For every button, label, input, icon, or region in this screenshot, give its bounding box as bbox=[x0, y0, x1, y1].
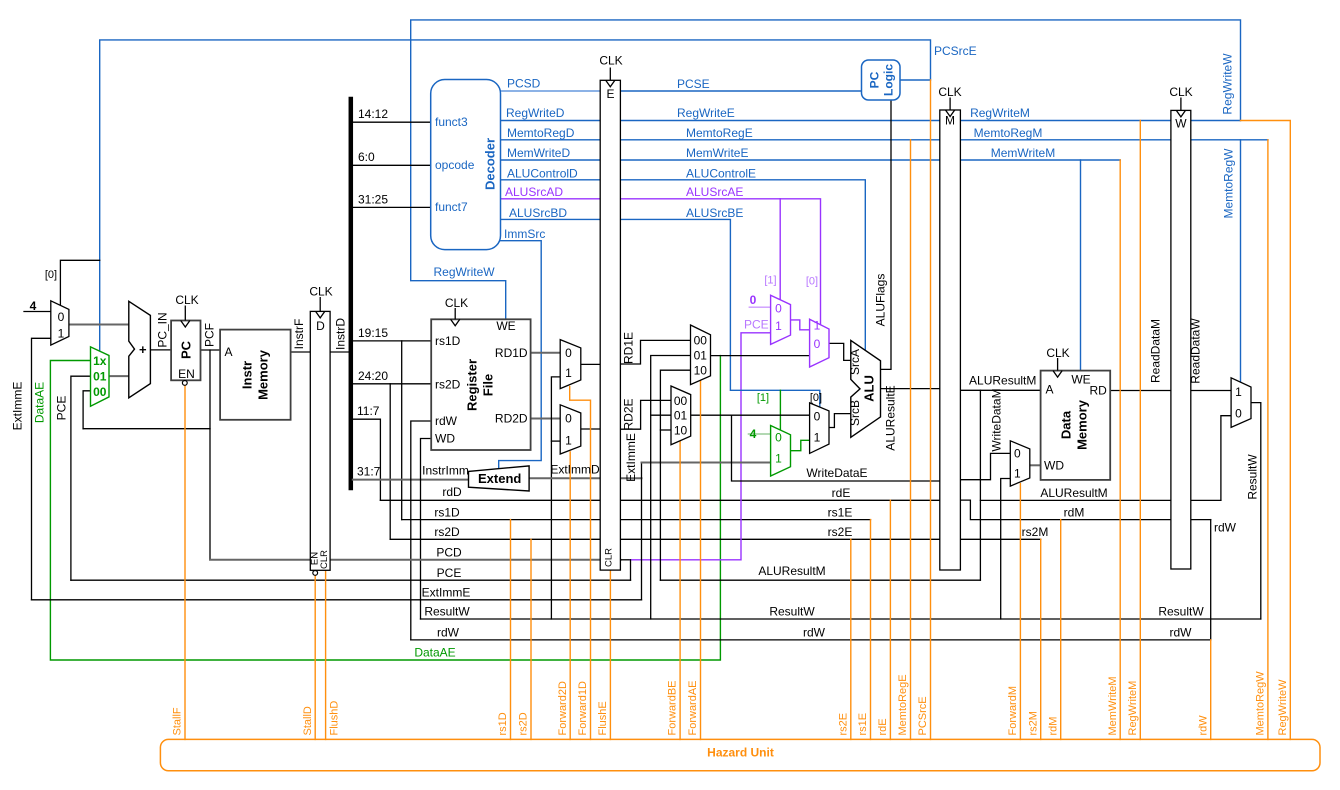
wire MemtoRegW branch down to ResultW mux select bbox=[1240, 140, 1242, 382]
svg-text:rs2D: rs2D bbox=[518, 712, 530, 735]
svg-text:rs1E: rs1E bbox=[828, 506, 853, 520]
svg-text:DataAE: DataAE bbox=[414, 646, 455, 660]
svg-text:rs1D: rs1D bbox=[435, 334, 461, 348]
wire rdM to hazard unit bbox=[1060, 520, 1062, 740]
svg-text:24:20: 24:20 bbox=[358, 369, 388, 383]
memory Data Memory bbox=[1041, 371, 1111, 480]
svg-text:0: 0 bbox=[814, 337, 821, 351]
svg-text:31:25: 31:25 bbox=[358, 193, 388, 207]
mux ALUSrcB mux bbox=[810, 403, 829, 454]
svg-text:1: 1 bbox=[565, 434, 572, 448]
svg-text:ALUSrcAD: ALUSrcAD bbox=[505, 185, 563, 199]
register PC bbox=[171, 321, 200, 381]
wire constant 4 into SrcB constant mux bbox=[748, 433, 770, 435]
wire SrcB constant mux output to SrcB mux bbox=[791, 440, 810, 450]
svg-text:ALUSrcAE: ALUSrcAE bbox=[686, 185, 743, 199]
svg-text:00: 00 bbox=[93, 385, 107, 399]
svg-text:0: 0 bbox=[1014, 447, 1021, 461]
wire instruction bus bbox=[349, 99, 354, 488]
wire ALUResultM from M to Data Memory A bbox=[960, 389, 1040, 391]
svg-text:[0]: [0] bbox=[45, 269, 57, 281]
svg-text:1: 1 bbox=[58, 327, 65, 341]
svg-text:PCE: PCE bbox=[437, 566, 462, 580]
svg-text:SrcA: SrcA bbox=[848, 349, 862, 375]
svg-text:FlushE: FlushE bbox=[597, 701, 609, 735]
wire FlushE to hazard unit bbox=[609, 570, 611, 739]
svg-text:ALU: ALU bbox=[862, 375, 877, 402]
wire SrcA mux1 output to mux2 bbox=[791, 320, 810, 330]
svg-text:D: D bbox=[316, 319, 325, 333]
svg-text:CLK: CLK bbox=[1046, 346, 1069, 360]
svg-text:6:0: 6:0 bbox=[358, 150, 375, 164]
svg-text:E: E bbox=[606, 87, 614, 101]
wire PCE into fetch green mux input 01 bbox=[71, 376, 91, 580]
wire ALUResultM row to W register bbox=[980, 499, 1221, 501]
mux ALUSrcA mux2 bbox=[810, 319, 829, 367]
svg-text:Data: Data bbox=[1059, 410, 1074, 439]
svg-text:rdW: rdW bbox=[435, 414, 458, 428]
svg-text:0: 0 bbox=[1235, 407, 1242, 421]
wire ALUFlags up to PC Logic bbox=[881, 100, 892, 369]
wire MemtoRegW to hazard unit bbox=[1267, 140, 1269, 740]
svg-text:1: 1 bbox=[814, 319, 821, 333]
enable bubble PC EN bbox=[182, 381, 187, 386]
wire SrcA mux2 output to ALU SrcA bbox=[829, 343, 851, 360]
register M pipeline register bbox=[940, 110, 961, 570]
svg-text:ExtImmE: ExtImmE bbox=[422, 586, 471, 600]
svg-text:StallF: StallF bbox=[172, 707, 184, 735]
wire ExtImmE into fetch mux input 1 bbox=[32, 338, 51, 600]
svg-text:0: 0 bbox=[775, 302, 782, 316]
svg-text:4: 4 bbox=[750, 427, 757, 441]
svg-text:ExtImmE: ExtImmE bbox=[624, 433, 638, 482]
svg-text:CLR: CLR bbox=[319, 550, 330, 569]
svg-text:InstrD: InstrD bbox=[334, 318, 348, 350]
svg-text:ExtImmE: ExtImmE bbox=[11, 382, 25, 431]
svg-text:1: 1 bbox=[565, 366, 572, 380]
register file bbox=[431, 319, 530, 450]
wire ALUResultE to M register bbox=[881, 388, 940, 390]
wire RegWriteW top run from W back to Register File WE bbox=[411, 20, 1241, 319]
wire ALUResultM stub to ForwardBE mux input 10 bbox=[660, 429, 671, 431]
svg-text:CLR: CLR bbox=[604, 548, 615, 567]
wire StallD to hazard unit bbox=[314, 575, 316, 739]
wire rs2M to hazard unit bbox=[1040, 539, 1042, 739]
wire constant 4 into fetch mux bbox=[24, 311, 51, 313]
svg-text:ExtImmD: ExtImmD bbox=[550, 463, 600, 477]
svg-text:opcode: opcode bbox=[435, 158, 475, 172]
svg-text:ALUSrcBD: ALUSrcBD bbox=[509, 206, 567, 220]
svg-text:ForwardAE: ForwardAE bbox=[687, 680, 699, 735]
wire bus tap 14:12 to funct3 bbox=[353, 121, 431, 123]
wire forward mux2 output to E register bbox=[581, 428, 600, 430]
enable bubble D register EN bbox=[313, 571, 318, 576]
svg-text:MemtoRegW: MemtoRegW bbox=[1222, 148, 1236, 219]
svg-text:PCSE: PCSE bbox=[677, 77, 710, 91]
wire PCF from PC to Instr Memory bbox=[201, 349, 221, 351]
wire fetch green mux output to adder bbox=[109, 375, 129, 377]
wire rs2E to hazard unit bbox=[850, 539, 852, 739]
wire bus tap 11:7 down to rdD row bbox=[353, 419, 381, 500]
svg-text:RegWriteM: RegWriteM bbox=[1127, 681, 1139, 736]
clock pin PC bbox=[181, 306, 190, 328]
svg-text:rs1E: rs1E bbox=[857, 713, 869, 736]
wire MemWriteD/E/M control row bbox=[501, 159, 1121, 161]
wire rs2D to hazard unit bbox=[530, 539, 532, 739]
svg-text:Extend: Extend bbox=[478, 471, 521, 486]
svg-text:CLK: CLK bbox=[445, 296, 468, 310]
svg-text:1: 1 bbox=[775, 452, 782, 466]
wire PCE branch down to PCE row bbox=[630, 560, 632, 580]
svg-text:SrcB: SrcB bbox=[848, 400, 862, 426]
svg-text:rdW: rdW bbox=[1170, 626, 1193, 640]
wire PCE row back to fetch bbox=[71, 579, 631, 581]
pc logic unit bbox=[862, 60, 901, 100]
wire ExtImmD from Extend to E register bbox=[529, 477, 641, 479]
svg-text:10: 10 bbox=[674, 424, 688, 438]
svg-text:ResultW: ResultW bbox=[1246, 454, 1260, 500]
svg-text:RegWriteD: RegWriteD bbox=[506, 106, 565, 120]
wire rs1D to hazard unit bbox=[510, 520, 512, 740]
wire PCF feedback row bbox=[83, 428, 210, 430]
svg-text:RegWriteM: RegWriteM bbox=[970, 106, 1030, 120]
wire ResultW stub into rs2 forward mux input 1 bbox=[551, 440, 560, 442]
wire rs1D branch down to rs1D row bbox=[401, 341, 403, 520]
wire RegWriteW to hazard unit bbox=[1241, 121, 1291, 740]
wire ResultW row bbox=[421, 618, 1261, 620]
wire fetch mux output to adder bbox=[69, 324, 129, 326]
svg-text:PCSrcE: PCSrcE bbox=[917, 696, 929, 735]
wire SrcB mux output to ALU SrcB bbox=[829, 414, 851, 428]
svg-text:0: 0 bbox=[775, 431, 782, 445]
wire ForwardAE select to hazard unit bbox=[700, 381, 702, 740]
wire rs2D branch down to rs2D row bbox=[389, 384, 391, 540]
svg-text:ReadDataM: ReadDataM bbox=[1149, 319, 1163, 383]
svg-text:ResultW: ResultW bbox=[1158, 605, 1204, 619]
svg-text:rdW: rdW bbox=[803, 626, 826, 640]
svg-text:WD: WD bbox=[1044, 459, 1064, 473]
svg-text:EN: EN bbox=[178, 367, 195, 381]
wire WriteDataM from M to mux bbox=[960, 453, 1010, 479]
svg-text:31:7: 31:7 bbox=[357, 465, 381, 479]
svg-text:ALUFlags: ALUFlags bbox=[874, 274, 888, 327]
svg-text:19:15: 19:15 bbox=[358, 326, 388, 340]
svg-text:[1]: [1] bbox=[764, 275, 776, 287]
mux SrcB constant-4 mux bbox=[771, 426, 791, 477]
svg-text:WE: WE bbox=[1071, 373, 1090, 387]
wire MemWriteM to hazard unit bbox=[1119, 160, 1121, 739]
mux ALUSrcA mux1 bbox=[771, 295, 791, 344]
svg-text:CLK: CLK bbox=[309, 285, 332, 299]
svg-text:Forward2D: Forward2D bbox=[557, 681, 569, 735]
wire RD2E to ForwardBE mux bbox=[620, 400, 671, 429]
svg-text:RD2D: RD2D bbox=[495, 412, 528, 426]
svg-text:+: + bbox=[139, 342, 147, 357]
clock pin E register bbox=[606, 68, 615, 87]
wire ALUSrcBE bit1 select green bbox=[779, 390, 781, 430]
register D pipeline register bbox=[310, 311, 330, 570]
svg-text:ALUControlE: ALUControlE bbox=[686, 167, 756, 181]
svg-text:RegWriteE: RegWriteE bbox=[677, 106, 735, 120]
svg-text:ResultW: ResultW bbox=[424, 605, 470, 619]
svg-text:W: W bbox=[1175, 117, 1187, 131]
wire ForwardAE mux output to SrcA mux bbox=[711, 355, 810, 357]
svg-text:MemWriteD: MemWriteD bbox=[507, 146, 570, 160]
wire PCE purple run to ALUSrcA mux bbox=[631, 333, 771, 560]
wire RegWriteM to hazard unit bbox=[1139, 121, 1141, 740]
alu bbox=[851, 340, 881, 437]
svg-text:RD2E: RD2E bbox=[622, 398, 636, 430]
svg-text:PCF: PCF bbox=[203, 323, 217, 347]
svg-text:PCE: PCE bbox=[55, 396, 69, 421]
wire ALUControlD/E control row down to ALU bbox=[501, 180, 866, 350]
wire FlushD to hazard unit bbox=[325, 570, 327, 739]
wire ALUSrcAE bit1 select bbox=[779, 199, 781, 300]
svg-text:1: 1 bbox=[1235, 385, 1242, 399]
svg-text:FlushD: FlushD bbox=[328, 701, 340, 736]
svg-text:ReadDataW: ReadDataW bbox=[1189, 318, 1203, 384]
wire PCSE segment bbox=[610, 90, 862, 92]
svg-text:10: 10 bbox=[694, 364, 708, 378]
svg-text:rs1D: rs1D bbox=[497, 712, 509, 735]
mux fetch PCSrc mux bbox=[51, 301, 69, 345]
svg-text:0: 0 bbox=[750, 293, 757, 307]
svg-text:funct3: funct3 bbox=[435, 115, 468, 129]
wire ExtImmE to SrcB constant mux bbox=[642, 462, 771, 464]
clock pin D register bbox=[316, 297, 325, 318]
svg-text:RegWriteW: RegWriteW bbox=[1277, 679, 1289, 736]
wire ForwardBE select to hazard unit bbox=[679, 442, 681, 740]
svg-text:RegWriteW: RegWriteW bbox=[434, 265, 496, 279]
svg-text:Memory: Memory bbox=[256, 349, 271, 400]
svg-text:PC: PC bbox=[868, 71, 882, 88]
svg-text:Register: Register bbox=[465, 359, 480, 411]
svg-text:A: A bbox=[1046, 383, 1054, 397]
wire ALUSrcAD/E control row bbox=[501, 199, 821, 325]
svg-text:rs2D: rs2D bbox=[435, 378, 461, 392]
wire forward mux1 output to E register bbox=[581, 363, 600, 365]
mux fetch jump target green mux bbox=[91, 347, 110, 406]
svg-text:MemWriteM: MemWriteM bbox=[1107, 676, 1119, 735]
wire ForwardM select to hazard unit bbox=[1019, 484, 1021, 740]
svg-text:1: 1 bbox=[775, 319, 782, 333]
svg-text:funct7: funct7 bbox=[435, 200, 468, 214]
svg-text:MemtoRegD: MemtoRegD bbox=[507, 126, 575, 140]
svg-text:DataAE: DataAE bbox=[33, 382, 47, 423]
svg-text:[0]: [0] bbox=[810, 392, 822, 404]
wire ResultW up to ForwardAE mux input 01 bbox=[651, 356, 691, 620]
mux ForwardBE mux bbox=[671, 386, 691, 445]
wire MemtoRegE to hazard unit bbox=[910, 140, 912, 740]
wire ALUResultW up to ResultW mux input 0 bbox=[1221, 416, 1231, 501]
svg-text:ALUResultM: ALUResultM bbox=[1040, 486, 1107, 500]
register W pipeline register bbox=[1171, 110, 1191, 569]
svg-text:1x: 1x bbox=[93, 354, 107, 368]
wire PCSD/PCSE control row bbox=[501, 90, 611, 92]
wire ResultW up into D-stage forward muxes bbox=[551, 377, 560, 619]
wire ALUSrcBD/E control row bbox=[501, 219, 820, 407]
svg-text:rdW: rdW bbox=[1197, 715, 1209, 736]
svg-text:MemWriteE: MemWriteE bbox=[686, 146, 748, 160]
wire PCF into fetch green mux input 00 bbox=[83, 391, 90, 429]
svg-text:ALUResultE: ALUResultE bbox=[884, 385, 898, 450]
extend unit bbox=[469, 466, 530, 491]
svg-text:File: File bbox=[481, 374, 496, 396]
wire bus tap 31:7 InstrImm to Extend bbox=[353, 479, 469, 481]
wire ResultW up to WriteDataM mux input 1 bbox=[1001, 479, 1011, 620]
wire rdD row bbox=[380, 499, 960, 501]
wire RD1D to forward mux bbox=[531, 352, 561, 354]
svg-text:PCE: PCE bbox=[744, 318, 769, 332]
wire rdW row up into Register File rdW pin bbox=[411, 421, 431, 640]
svg-text:PCD: PCD bbox=[436, 546, 462, 560]
wire WriteDataM mux output to Data Memory WD bbox=[1030, 464, 1041, 466]
hazard unit box bbox=[160, 739, 1320, 770]
clock pin M register bbox=[946, 98, 955, 117]
wire ImmSrc down to Extend bbox=[499, 241, 542, 469]
svg-text:Memory: Memory bbox=[1075, 399, 1090, 450]
svg-text:0: 0 bbox=[814, 410, 821, 424]
wire PCSrcE bit0 tap to fetch mux select bbox=[60, 260, 99, 306]
svg-text:RD1E: RD1E bbox=[622, 332, 636, 364]
clock pin W register bbox=[1176, 98, 1185, 117]
svg-text:rdW: rdW bbox=[1214, 521, 1237, 535]
svg-text:WriteDataM: WriteDataM bbox=[990, 388, 1004, 451]
svg-text:WriteDataE: WriteDataE bbox=[806, 466, 867, 480]
svg-text:rs2E: rs2E bbox=[828, 525, 853, 539]
wire rs1E to hazard unit bbox=[870, 520, 872, 740]
wire constant 0 into SrcA mux bbox=[749, 306, 770, 308]
wire rdW row bbox=[411, 639, 1211, 641]
wire PCF branch down to PCD row bbox=[209, 350, 211, 560]
svg-text:rdD: rdD bbox=[442, 485, 462, 499]
svg-text:11:7: 11:7 bbox=[357, 404, 380, 418]
wire StallF to hazard unit bbox=[184, 385, 186, 739]
svg-text:ALUResultM: ALUResultM bbox=[758, 564, 825, 578]
svg-text:rs1D: rs1D bbox=[434, 506, 460, 520]
svg-text:RD: RD bbox=[1089, 384, 1107, 398]
memory Instr Memory bbox=[220, 330, 291, 420]
svg-text:01: 01 bbox=[694, 349, 708, 363]
svg-text:WE: WE bbox=[496, 319, 515, 333]
wire ResultW row up into Register File WD pin bbox=[421, 439, 432, 620]
svg-text:00: 00 bbox=[694, 334, 708, 348]
wire ForwardBE mux output to SrcB mux bbox=[691, 414, 810, 416]
svg-text:InstrImm: InstrImm bbox=[422, 464, 469, 478]
svg-text:0: 0 bbox=[58, 310, 65, 324]
mux ForwardAE mux bbox=[691, 325, 711, 385]
wire Forward2D select to hazard unit bbox=[569, 452, 571, 739]
svg-text:rdE: rdE bbox=[832, 486, 851, 500]
svg-text:A: A bbox=[224, 345, 232, 359]
wire rdE to hazard unit bbox=[889, 500, 891, 739]
svg-text:rdM: rdM bbox=[1047, 717, 1059, 736]
svg-text:CLK: CLK bbox=[599, 54, 622, 68]
svg-text:ForwardM: ForwardM bbox=[1007, 686, 1019, 736]
wire bus tap 24:20 to rs2D bbox=[353, 383, 431, 385]
svg-text:Hazard Unit: Hazard Unit bbox=[707, 746, 774, 760]
svg-text:[1]: [1] bbox=[757, 392, 769, 404]
svg-text:InstrF: InstrF bbox=[292, 319, 306, 350]
svg-text:MemtoRegM: MemtoRegM bbox=[974, 126, 1043, 140]
svg-text:00: 00 bbox=[674, 394, 688, 408]
svg-text:1: 1 bbox=[814, 431, 821, 445]
svg-text:rs2M: rs2M bbox=[1022, 525, 1049, 539]
svg-text:PC_IN: PC_IN bbox=[156, 312, 170, 347]
svg-text:Forward1D: Forward1D bbox=[577, 681, 589, 735]
clock pin Data Memory bbox=[1053, 358, 1062, 377]
decoder U1 bbox=[431, 80, 501, 250]
svg-text:MemtoRegE: MemtoRegE bbox=[686, 126, 753, 140]
svg-text:4: 4 bbox=[30, 299, 37, 313]
adder PC+4 bbox=[129, 301, 151, 398]
svg-text:rdM: rdM bbox=[1064, 506, 1085, 520]
svg-text:PC: PC bbox=[179, 340, 194, 359]
svg-text:Logic: Logic bbox=[882, 64, 896, 96]
wire WriteDataE tap down and to M register bbox=[732, 415, 961, 481]
svg-text:0: 0 bbox=[565, 346, 572, 360]
wire MemWriteM branch down to Data Memory WE bbox=[1080, 160, 1082, 371]
svg-text:StallD: StallD bbox=[302, 706, 314, 735]
wire rdW down to rdW row bbox=[1210, 520, 1212, 640]
wire PC_IN adder output to PC bbox=[150, 349, 171, 351]
register E pipeline register bbox=[600, 80, 620, 570]
wire rs1D row bbox=[402, 519, 871, 521]
wire PCSrcE top run bbox=[100, 40, 931, 351]
mux ResultW mux bbox=[1231, 378, 1251, 428]
wire ALUResultM up to ForwardAE mux input 10 bbox=[660, 370, 690, 580]
wire PCSrcE to hazard unit bbox=[930, 80, 932, 739]
svg-text:ALUControlD: ALUControlD bbox=[507, 167, 578, 181]
svg-text:CLK: CLK bbox=[1169, 85, 1192, 99]
svg-text:CLK: CLK bbox=[175, 293, 198, 307]
svg-text:WD: WD bbox=[435, 432, 455, 446]
svg-text:PCSrcE: PCSrcE bbox=[934, 44, 977, 58]
svg-text:RD1D: RD1D bbox=[495, 346, 528, 360]
wire bus tap 6:0 to opcode bbox=[353, 164, 431, 166]
wire InstrF/InstrD from Instr Memory through D register to bus bbox=[291, 351, 351, 353]
svg-text:rs2M: rs2M bbox=[1027, 711, 1039, 735]
svg-text:RegWriteW: RegWriteW bbox=[1221, 53, 1235, 115]
svg-text:PCSD: PCSD bbox=[507, 77, 541, 91]
clock pin Register File bbox=[451, 308, 460, 326]
svg-text:ALUResultM: ALUResultM bbox=[969, 374, 1036, 388]
wire rdM jog from M register bbox=[960, 500, 1210, 519]
svg-text:01: 01 bbox=[674, 409, 688, 423]
svg-text:01: 01 bbox=[93, 370, 107, 384]
mux ForwardM WriteData mux bbox=[1010, 441, 1030, 486]
wire ALUResultM branch down bbox=[979, 390, 981, 580]
svg-text:Decoder: Decoder bbox=[483, 138, 498, 190]
svg-text:ForwardBE: ForwardBE bbox=[667, 680, 679, 735]
wire ExtImmE row back to fetch bbox=[32, 599, 642, 601]
wire rs2D row bbox=[390, 538, 1040, 540]
wire DataAE from ForwardAE mux output to fetch green mux input 1x bbox=[50, 356, 720, 660]
svg-text:MemtoRegE: MemtoRegE bbox=[897, 674, 909, 735]
svg-text:0: 0 bbox=[565, 412, 572, 426]
wire Forward1D select to hazard unit bbox=[570, 387, 591, 740]
svg-text:MemWriteM: MemWriteM bbox=[991, 146, 1055, 160]
wire ResultW stub to ForwardBE mux input 01 bbox=[651, 414, 671, 416]
svg-text:rs2E: rs2E bbox=[837, 713, 849, 736]
svg-text:1: 1 bbox=[1014, 467, 1021, 481]
wire MemtoRegD/E/M/W control row bbox=[501, 139, 1268, 141]
svg-text:ResultW: ResultW bbox=[769, 605, 815, 619]
svg-text:rdW: rdW bbox=[437, 626, 460, 640]
svg-text:rdE: rdE bbox=[877, 718, 889, 735]
mux Forward1D mux bbox=[560, 340, 581, 389]
wire ResultW mux output down to ResultW row bbox=[1251, 403, 1261, 619]
